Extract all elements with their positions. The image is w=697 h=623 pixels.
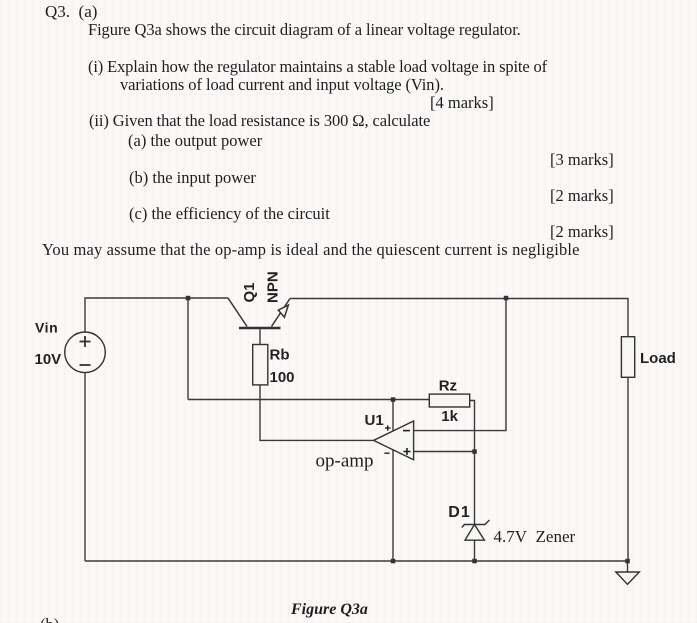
svg-text:1k: 1k [441,408,458,425]
wire Rz right lead down to zener [470,401,475,525]
op-amp V+ marking [385,425,391,430]
wire Rb bottom to op-amp output [260,385,374,440]
op-amp inverting input marking [403,430,410,432]
voltage source Vin [65,332,106,373]
junction node at op-amp V- ground [391,559,396,564]
svg-text:4.7V Zener: 4.7V Zener [494,527,576,546]
op-amp non-inverting input marking [404,448,411,455]
svg-text:op-amp: op-amp [316,451,374,472]
junction node at load ground [625,559,630,564]
junction node at Vin/bias tap [186,296,191,301]
svg-text:Rb: Rb [270,347,290,364]
wire bias drop from node at (188,298) [187,298,189,400]
svg-text:Rz: Rz [439,378,457,395]
resistor Load [621,337,634,378]
wire op-amp V+ pin [392,400,394,432]
svg-text:100: 100 [270,369,295,386]
question text block [45,3,97,20]
svg-text:U1: U1 [365,412,384,429]
wire top rail left (Vin to Q1 collector) [85,298,228,332]
wire op-amp V- pin to ground rail [392,450,394,561]
svg-text:Load: Load [640,350,676,367]
svg-text:D1: D1 [448,504,470,521]
resistor Rb [253,345,268,385]
junction node at zener ground [472,559,477,564]
wire Vin bottom lead to ground rail [84,373,86,562]
wire ground stub [627,561,629,572]
op-amp U1 [374,421,414,460]
wire top rail right (Q1 emitter to Load) [290,299,628,338]
svg-text:NPN: NPN [265,271,282,303]
wire Q1 base lead to Rb [259,329,261,345]
transistor Q1 [228,298,290,328]
svg-text:Q1: Q1 [241,282,258,302]
wire Load bottom lead [627,378,629,562]
junction node at op-amp V+ tap [391,397,396,402]
wire bias horizontal to Rz [188,399,429,401]
zener diode D1 [462,520,490,540]
junction node at output/feedback tap [504,296,509,301]
junction node at zener/non-inverting input [472,449,477,454]
svg-text:Vin: Vin [35,319,58,335]
resistor Rz [429,394,469,407]
op-amp V- marking [384,452,389,454]
wire op-amp inverting input feedback [414,298,506,431]
ground [616,572,640,584]
wire op-amp non-inverting input [414,451,475,453]
svg-text:10V: 10V [35,351,62,368]
wire zener cathode node down [474,540,476,561]
wire bottom ground rail [85,560,628,562]
